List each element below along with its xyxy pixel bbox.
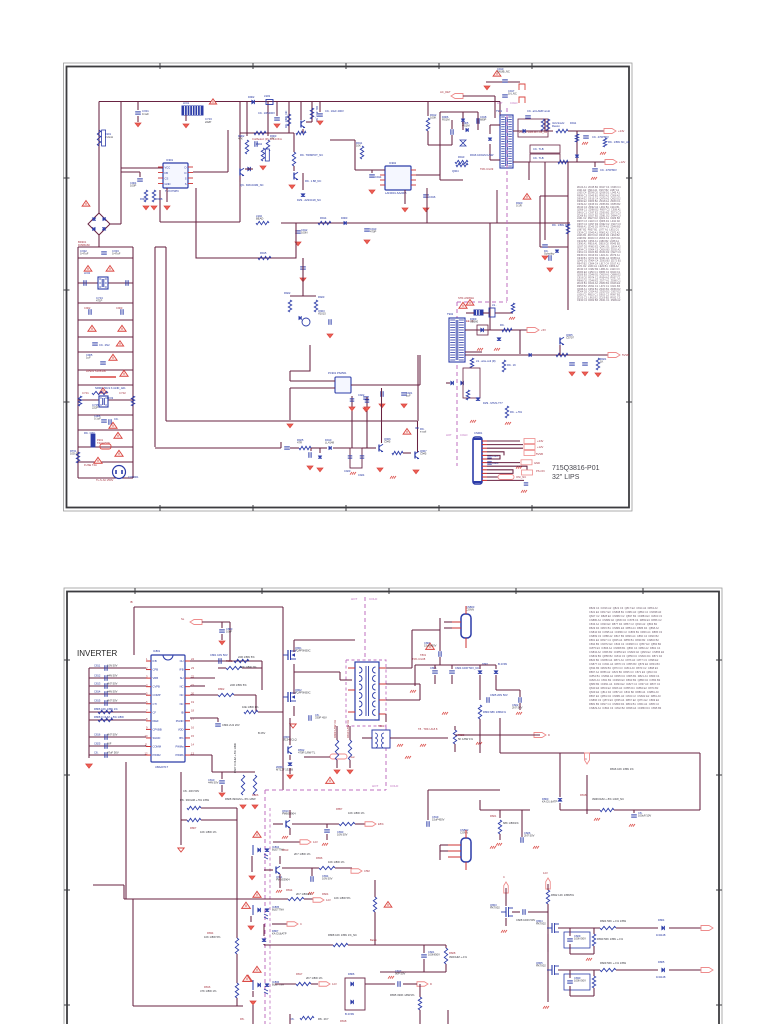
svg-text:5K 1/8W 1%: 5K 1/8W 1% xyxy=(458,737,474,741)
svg-text:32" LIPS: 32" LIPS xyxy=(552,474,580,481)
svg-text:PWMb: PWMb xyxy=(175,753,184,757)
svg-text:2K7 1/8W 1%: 2K7 1/8W 1% xyxy=(306,976,323,980)
svg-text:14: 14 xyxy=(191,743,194,747)
svg-text:R814: R814 xyxy=(286,888,293,892)
svg-text:NC: NC xyxy=(180,702,184,706)
svg-text:R817: R817 xyxy=(296,972,303,976)
svg-text:UBA2071T: UBA2071T xyxy=(155,765,169,769)
svg-text:C923: C923 xyxy=(344,469,351,473)
svg-text:R816 10K 1/8W 1%: R816 10K 1/8W 1% xyxy=(610,767,634,771)
svg-text:R834: R834 xyxy=(207,931,214,935)
svg-text:R820 B2 CN853 A4 R871 A4 C8: R820 B2 CN853 A4 R871 A4 C876 A0 C877 C3… xyxy=(589,658,659,662)
svg-text:COLD: COLD xyxy=(390,784,399,788)
svg-text:R9.. 1.88_NC: R9.. 1.88_NC xyxy=(305,179,321,183)
svg-text:22R 1/8W 5%: 22R 1/8W 5% xyxy=(238,655,255,659)
svg-text:CN880 A4 CN882 A0 Q836 D4 I: CN880 A4 CN882 A0 Q836 D4 IC878 C4 R869 … xyxy=(589,618,662,622)
svg-text:COMP: COMP xyxy=(153,693,161,697)
svg-text:10: 10 xyxy=(145,734,148,738)
svg-text:1N_NC: 1N_NC xyxy=(508,92,517,96)
svg-text:R8.. 39OHM +-5% 1/8W: R8.. 39OHM +-5% 1/8W xyxy=(180,798,210,802)
svg-text:10E 1/8W 1%: 10E 1/8W 1% xyxy=(242,705,259,709)
svg-text:L903: L903 xyxy=(264,94,270,98)
svg-text:10K 1/8W 7%: 10K 1/8W 7% xyxy=(240,665,257,669)
svg-text:1N4148: 1N4148 xyxy=(656,933,666,937)
svg-text:IFB: IFB xyxy=(153,659,157,663)
svg-text:R916 10OHM 1/8W: R916 10OHM 1/8W xyxy=(470,153,494,157)
svg-text:LAF0001-SA2008: LAF0001-SA2008 xyxy=(385,191,407,195)
svg-text:10N 50V: 10N 50V xyxy=(337,833,348,837)
svg-text:1K: 1K xyxy=(600,359,603,363)
svg-text:C815: C815 xyxy=(94,699,101,703)
svg-text:PC901 PS2561: PC901 PS2561 xyxy=(328,371,347,375)
svg-text:IC875 E3 IC896 A4 CN868 B1: IC875 E3 IC896 A4 CN868 B1 Q860 C4 D860 … xyxy=(589,646,661,650)
svg-text:C: C xyxy=(503,875,505,879)
svg-text:5VSB: 5VSB xyxy=(622,353,629,357)
svg-text:100P: 100P xyxy=(130,184,136,188)
svg-text:NC: NC xyxy=(180,693,184,697)
svg-text:0.47uF: 0.47uF xyxy=(112,252,121,256)
svg-text:PWM2: PWM2 xyxy=(153,753,162,757)
svg-text:C816: C816 xyxy=(94,733,101,737)
svg-text:PWMa: PWMa xyxy=(175,745,184,749)
svg-text:12V: 12V xyxy=(326,898,331,902)
svg-text:TL-S AC 250V: TL-S AC 250V xyxy=(96,478,114,482)
svg-text:C: C xyxy=(585,757,587,761)
svg-text:C825: C825 xyxy=(94,742,101,746)
svg-text:715Q3816-P01: 715Q3816-P01 xyxy=(552,465,600,472)
svg-text:KA D1&ATP: KA D1&ATP xyxy=(272,932,287,936)
svg-text:Q834 B3 D839 B3 Q873 C3 IC8: Q834 B3 D839 B3 Q873 C3 IC813 A0 R870 C2… xyxy=(589,666,658,670)
svg-text:C833 A4 C820 E3 R877 D4 R86: C833 A4 C820 E3 R877 D4 R867 C2 Q819 A2 … xyxy=(589,622,658,626)
svg-text:T902: T902 xyxy=(447,312,454,316)
svg-text:R802: R802 xyxy=(218,687,225,691)
svg-text:D: D xyxy=(185,171,187,175)
svg-text:T802: T802 xyxy=(378,724,385,728)
svg-text:C806: C806 xyxy=(430,666,437,670)
svg-text:AC_DET: AC_DET xyxy=(440,90,451,94)
svg-text:C9.. 10uF 400V: C9.. 10uF 400V xyxy=(325,109,344,113)
svg-text:C801 10N 50V: C801 10N 50V xyxy=(210,653,228,657)
svg-text:SB560: SB560 xyxy=(470,319,479,323)
svg-text:2K7 1/8W1%: 2K7 1/8W1% xyxy=(296,892,312,896)
svg-text:100N 50V: 100N 50V xyxy=(574,937,586,941)
svg-text:R809 1/8W 1%: R809 1/8W 1% xyxy=(333,719,337,738)
svg-text:C9.. TLB: C9.. TLB xyxy=(533,156,544,160)
svg-text:BLET7NA: BLET7NA xyxy=(272,908,284,912)
svg-text:INVERTER: INVERTER xyxy=(77,649,118,658)
svg-text:C9..: C9.. xyxy=(114,417,119,421)
svg-text:Q827 C2 D828 E2 CN883 C2 Q8: Q827 C2 D828 E2 CN883 C2 Q897 B2 CN884 E… xyxy=(589,614,663,618)
svg-text:2.2mH: 2.2mH xyxy=(105,135,113,139)
svg-text:44N 50V: 44N 50V xyxy=(107,690,118,694)
svg-text:L904: L904 xyxy=(256,142,262,146)
svg-text:E5%: E5% xyxy=(378,822,384,826)
svg-text:KA D1 &ATP: KA D1 &ATP xyxy=(542,800,558,804)
svg-text:C812: C812 xyxy=(94,674,101,678)
svg-text:IC901: IC901 xyxy=(166,158,174,162)
svg-text:D: D xyxy=(185,166,187,170)
svg-text:D: D xyxy=(548,733,550,737)
svg-text:C932 C4 D962 B3 ZD41 C1 R99: C932 C4 D962 B3 ZD41 C1 R999 A2 xyxy=(577,299,621,302)
svg-text:LL4148: LL4148 xyxy=(325,440,334,444)
svg-text:+12V: +12V xyxy=(619,160,626,164)
svg-text:Q829 E2 Q812 D4 C887 A0 C83: Q829 E2 Q812 D4 C887 A0 C832 B2 D889 A4 … xyxy=(589,690,659,694)
svg-text:+12V: +12V xyxy=(537,445,544,449)
svg-text:CH: CH xyxy=(180,659,184,663)
svg-text:DZ9.. MTZJ-T77: DZ9.. MTZJ-T77 xyxy=(483,401,503,405)
svg-text:R914: R914 xyxy=(320,216,327,220)
svg-text:0.1uF: 0.1uF xyxy=(142,112,149,116)
svg-text:C811: C811 xyxy=(94,664,101,668)
svg-text:C945: C945 xyxy=(420,451,427,455)
svg-text:+5V: +5V xyxy=(541,328,546,332)
svg-text:R829 56K +-1% 1/8W: R829 56K +-1% 1/8W xyxy=(600,961,627,965)
svg-text:DZ9.. AZ23C18_NC: DZ9.. AZ23C18_NC xyxy=(297,198,321,202)
svg-text:HOT: HOT xyxy=(446,433,452,437)
svg-text:R828 39OHM +-5% 1/8W: R828 39OHM +-5% 1/8W xyxy=(225,797,256,801)
svg-text:PMBS3904: PMBS3904 xyxy=(282,812,296,816)
svg-text:C903: C903 xyxy=(116,306,123,310)
svg-text:RS1M: RS1M xyxy=(442,118,450,122)
svg-text:D3SBA60: D3SBA60 xyxy=(78,243,90,247)
svg-text:471P: 471P xyxy=(96,299,102,303)
svg-text:47K 1/8W 1%: 47K 1/8W 1% xyxy=(200,989,217,993)
svg-text:NR901 5D-9 X-GND_A01: NR901 5D-9 X-GND_A01 xyxy=(95,386,126,390)
svg-text:90P 50V: 90P 50V xyxy=(395,972,405,976)
svg-text:D861 E2 R827 C4 Q845 A4 D85: D861 E2 R827 C4 Q845 A4 D855 B1 D839 B2 … xyxy=(589,638,659,642)
svg-text:18: 18 xyxy=(191,709,194,713)
svg-text:C8..: C8.. xyxy=(94,751,99,755)
svg-text:RK7002: RK7002 xyxy=(536,922,546,926)
svg-text:N/F: N/F xyxy=(107,742,112,746)
svg-text:100N: 100N xyxy=(301,231,307,235)
svg-text:12V: 12V xyxy=(543,871,548,875)
svg-text:R829 D4 D815 B1 CN881 E3 R8: R829 D4 D815 B1 CN881 E3 R853 A4 R886 D4… xyxy=(589,626,659,630)
svg-text:100N 50V: 100N 50V xyxy=(574,979,586,983)
svg-text:CN869 C3 C888 A2 D817 B3 R8: CN869 C3 C888 A2 D817 B3 R826 A4 C860 C4… xyxy=(589,634,659,638)
svg-text:CF: CF xyxy=(153,710,157,714)
svg-text:C9.. aCLAMP-snub: C9.. aCLAMP-snub xyxy=(527,109,551,113)
svg-text:T801: T801 xyxy=(420,653,427,657)
svg-text:BLET7NA: BLET7NA xyxy=(272,983,284,987)
svg-text:47R: 47R xyxy=(297,440,302,444)
svg-text:0.1uF: 0.1uF xyxy=(94,417,101,421)
svg-text:CS: CS xyxy=(165,177,169,181)
svg-text:R816: R816 xyxy=(204,985,211,989)
svg-text:LF02: LF02 xyxy=(84,271,91,275)
svg-text:R806 10K 1/8W 1%: R806 10K 1/8W 1% xyxy=(94,707,118,711)
svg-text:C828 100N 50V: C828 100N 50V xyxy=(516,918,535,922)
svg-text:12V: 12V xyxy=(313,840,318,844)
svg-text:R867 A4 R856 A2 C823 B3 D83: R867 A4 R856 A2 C823 B3 D835 C3 C871 E3 … xyxy=(589,670,657,674)
svg-text:C5707: C5707 xyxy=(566,335,574,339)
svg-text:R836: R836 xyxy=(316,856,323,860)
svg-text:C945: C945 xyxy=(384,439,391,443)
svg-text:470P: 470P xyxy=(370,230,376,234)
svg-text:R807: R807 xyxy=(190,826,197,830)
svg-text:CPB: CPB xyxy=(153,668,159,672)
svg-text:15: 15 xyxy=(191,734,194,738)
svg-text:FQPF9N50C: FQPF9N50C xyxy=(295,691,311,695)
svg-text:R908: R908 xyxy=(156,197,163,201)
svg-text:MTZJT-1313B: MTZJT-1313B xyxy=(276,768,293,772)
svg-text:22R 1/8W 5%: 22R 1/8W 5% xyxy=(230,683,247,687)
svg-text:LF03: LF03 xyxy=(107,396,114,400)
svg-text:10K 1/8W 5%: 10K 1/8W 5% xyxy=(204,935,221,939)
svg-text:RK7002: RK7002 xyxy=(490,906,500,910)
svg-text:10K 1/8W 5%: 10K 1/8W 5% xyxy=(334,896,351,900)
svg-text:PGND: PGND xyxy=(176,719,184,723)
svg-text:T901: T901 xyxy=(496,109,503,113)
svg-text:1uF: 1uF xyxy=(86,356,91,360)
svg-text:15uF450V: 15uF450V xyxy=(432,818,445,822)
svg-text:HOT: HOT xyxy=(497,101,503,105)
svg-text:Balan: Balan xyxy=(370,938,377,942)
svg-text:SL: SL xyxy=(181,617,185,621)
svg-text:10K: 10K xyxy=(356,144,361,148)
svg-text:68K 1/8W1%: 68K 1/8W1% xyxy=(503,821,519,825)
svg-text:4N7 50V: 4N7 50V xyxy=(107,682,118,686)
svg-text:C9.. 2N2: C9.. 2N2 xyxy=(99,343,110,347)
svg-text:C804 2U2 26V: C804 2U2 26V xyxy=(222,723,240,727)
svg-text:C924: C924 xyxy=(358,473,365,477)
svg-text:CN844 D4 IC895 A2 CN899 C2: CN844 D4 IC895 A2 CN899 C2 IC883 B1 D846… xyxy=(589,630,663,634)
svg-text:C825 20N 50V: C825 20N 50V xyxy=(490,693,508,697)
svg-text:10K 1/8W 1%: 10K 1/8W 1% xyxy=(200,830,217,834)
svg-text:VCC: VCC xyxy=(165,166,171,170)
svg-text:C9.. 470P80V: C9.. 470P80V xyxy=(600,168,617,172)
svg-text:R829 C4 IC816 A2 Q822 C3 Q8: R829 C4 IC816 A2 Q822 C3 Q817 E2 C814 A2… xyxy=(589,606,658,610)
svg-text:680P: 680P xyxy=(480,118,486,122)
svg-text:+24V: +24V xyxy=(618,129,625,133)
svg-text:100uF/10V: 100uF/10V xyxy=(638,814,651,818)
svg-text:BEAD: BEAD xyxy=(256,217,263,221)
svg-text:222P: 222P xyxy=(92,406,98,410)
svg-text:1N4148: 1N4148 xyxy=(656,975,666,979)
svg-text:R9.. +-5%: R9.. +-5% xyxy=(510,410,523,414)
svg-text:FQPF9N50C: FQPF9N50C xyxy=(295,649,311,653)
svg-text:IREF: IREF xyxy=(153,719,159,723)
svg-text:R907: R907 xyxy=(140,197,147,201)
svg-text:PS-ON: PS-ON xyxy=(536,469,545,473)
svg-text:IC820 A4 C831 B2 CN829 E3 D: IC820 A4 C831 B2 CN829 E3 D893 B2 Q886 D… xyxy=(589,678,661,682)
svg-text:A1015: A1015 xyxy=(318,312,326,316)
svg-text:C902: C902 xyxy=(84,306,91,310)
svg-text:R857: R857 xyxy=(336,807,343,811)
svg-text:R9.. 1K: R9.. 1K xyxy=(507,363,516,367)
svg-text:HOT: HOT xyxy=(372,784,379,788)
svg-text:10K 1/8W 1%: 10K 1/8W 1% xyxy=(348,811,365,815)
svg-text:2N7 50V: 2N7 50V xyxy=(524,834,535,838)
svg-text:L9.. wire-coil (R): L9.. wire-coil (R) xyxy=(476,359,496,363)
svg-text:R818: R818 xyxy=(340,1019,347,1023)
svg-text:R810 1/8W 1%: R810 1/8W 1% xyxy=(346,719,350,738)
svg-text:R8.. 2K7: R8.. 2K7 xyxy=(318,1017,329,1021)
svg-text:IB: IB xyxy=(130,600,133,604)
svg-text:R813: R813 xyxy=(282,848,289,852)
svg-text:R808 10K 1/8W 1%_NC: R808 10K 1/8W 1%_NC xyxy=(328,933,357,937)
svg-text:C: C xyxy=(300,922,302,926)
svg-text:D8..: D8.. xyxy=(290,1017,295,1021)
svg-text:R835 330K 1/8W1%: R835 330K 1/8W1% xyxy=(390,993,415,997)
svg-text:10D-9: 10D-9 xyxy=(70,452,78,456)
svg-text:390KOHM +-5% 1/4W_NC: 390KOHM +-5% 1/4W_NC xyxy=(592,797,624,801)
svg-text:R9.. 1/8W NC_A6: R9.. 1/8W NC_A6 xyxy=(608,140,630,144)
svg-text:R913: R913 xyxy=(458,155,465,159)
svg-text:VDD: VDD xyxy=(178,727,184,731)
svg-text:+24V: +24V xyxy=(537,439,544,443)
svg-text:D902: D902 xyxy=(248,95,255,99)
svg-text:470R 1/8W TL: 470R 1/8W TL xyxy=(298,751,316,755)
svg-text:C9.. TLB: C9.. TLB xyxy=(533,147,544,151)
svg-text:Resist: Resist xyxy=(552,124,560,128)
svg-text:R824 56K +-1% 1/8W: R824 56K +-1% 1/8W xyxy=(600,919,627,923)
svg-text:S: S xyxy=(185,177,187,181)
svg-text:PMBS3904: PMBS3904 xyxy=(276,878,290,882)
svg-text:CPVBB: CPVBB xyxy=(153,727,162,731)
svg-text:330P 45V: 330P 45V xyxy=(315,716,327,720)
svg-text:390OHM +-1%: 390OHM +-1% xyxy=(449,955,467,959)
svg-text:44N 50V: 44N 50V xyxy=(107,674,118,678)
svg-text:B 26V: B 26V xyxy=(258,731,266,735)
svg-text:T8.. TRF-U/L8.8: T8.. TRF-U/L8.8 xyxy=(418,727,438,731)
svg-text:4N7 50V: 4N7 50V xyxy=(107,733,118,737)
svg-text:C916: C916 xyxy=(429,195,436,199)
svg-text:FB: FB xyxy=(165,171,169,175)
svg-text:R808 0 OHM +-5% 1/8W: R808 0 OHM +-5% 1/8W xyxy=(94,715,124,719)
svg-text:B%: B% xyxy=(179,736,184,740)
svg-text:C925: C925 xyxy=(492,454,499,458)
svg-text:C813: C813 xyxy=(94,682,101,686)
svg-text:VRB: VRB xyxy=(153,676,159,680)
svg-text:D911: D911 xyxy=(570,121,577,125)
svg-text:Schottky: Schottky xyxy=(544,251,555,255)
svg-text:0.1R: 0.1R xyxy=(516,204,522,208)
svg-text:CON901: CON901 xyxy=(128,475,139,479)
svg-text:23: 23 xyxy=(191,666,194,670)
svg-text:12V: 12V xyxy=(332,982,337,986)
svg-text:SNUB_NC: SNUB_NC xyxy=(497,70,510,74)
svg-text:C922: C922 xyxy=(358,393,365,397)
svg-text:GND: GND xyxy=(165,182,171,186)
svg-text:SGND: SGND xyxy=(153,736,161,740)
svg-text:HOT: HOT xyxy=(351,597,358,601)
svg-text:R827 0 OHM +-5% 1/8W: R827 0 OHM +-5% 1/8W xyxy=(233,743,237,773)
svg-text:10N 50V: 10N 50V xyxy=(107,664,118,668)
svg-text:R915: R915 xyxy=(260,251,267,255)
svg-text:D804: D804 xyxy=(658,918,665,922)
svg-text:Q9.. KRC243M_NC: Q9.. KRC243M_NC xyxy=(240,183,264,187)
svg-text:IC902: IC902 xyxy=(389,161,397,165)
svg-text:CN866 C3 Q874 E3 Q835 A4 R8: CN866 C3 Q874 E3 Q835 A4 R867 E2 Q871 E2… xyxy=(589,698,660,702)
svg-text:IFB: IFB xyxy=(179,668,183,672)
svg-text:Q840 E3 R843 E2 D826 A0 IC8: Q840 E3 R843 E2 D826 A0 IC855 D4 IC884 E… xyxy=(589,686,659,690)
svg-text:100N/50V: 100N/50V xyxy=(428,953,440,957)
svg-text:B 4V99: B 4V99 xyxy=(498,662,507,666)
svg-text:STR-A6069H: STR-A6069H xyxy=(458,296,474,300)
svg-text:S: S xyxy=(185,182,187,186)
svg-text:R832 14K 1/8W5%: R832 14K 1/8W5% xyxy=(551,893,574,897)
svg-text:CONN: CONN xyxy=(466,608,474,612)
svg-text:D: D xyxy=(430,982,432,986)
svg-text:SH: SH xyxy=(180,676,184,680)
svg-text:R897 E2 Q881 D4 CN881 A0 C8: R897 E2 Q881 D4 CN881 A0 C834 C2 CN822 E… xyxy=(589,694,661,698)
svg-text:R9.. 1/8W_NC: R9.. 1/8W_NC xyxy=(284,111,288,128)
svg-text:Q904: Q904 xyxy=(452,169,459,173)
svg-text:10uF: 10uF xyxy=(226,630,232,634)
svg-text:C824 100P 50V_NC: C824 100P 50V_NC xyxy=(455,666,479,670)
svg-text:TRF-U/L08: TRF-U/L08 xyxy=(412,657,426,661)
svg-text:L9..: L9.. xyxy=(492,303,497,307)
svg-text:16: 16 xyxy=(191,726,194,730)
svg-text:R830 56K 1/8W +-1%: R830 56K 1/8W +-1% xyxy=(597,937,624,941)
svg-text:C5M: C5M xyxy=(364,869,370,873)
svg-text:10N 50V: 10N 50V xyxy=(322,877,333,881)
svg-text:CoilSelect (R)-175-1Ohm: CoilSelect (R)-175-1Ohm xyxy=(252,137,283,141)
svg-text:IC801: IC801 xyxy=(153,649,161,653)
svg-text:C894 B3 CN872 E3 C843 C2 CN: C894 B3 CN872 E3 C843 C2 CN828 C4 Q857 E… xyxy=(589,642,662,646)
svg-text:CY02: CY02 xyxy=(119,391,126,395)
svg-text:D805: D805 xyxy=(658,960,665,964)
svg-text:15uF450V: 15uF450V xyxy=(424,644,437,648)
svg-text:CONN: CONN xyxy=(460,831,468,835)
svg-text:R922: R922 xyxy=(284,291,291,295)
svg-text:R881 B3 D827 C4 CN860 D4 R8: R881 B3 D827 C4 CN860 D4 R819 B1 C864 A2… xyxy=(589,702,659,706)
svg-text:47K: 47K xyxy=(238,137,243,141)
svg-text:CN901: CN901 xyxy=(474,431,483,435)
svg-text:LF01: LF01 xyxy=(183,101,190,105)
svg-text:C8.. 40N 50V: C8.. 40N 50V xyxy=(183,789,199,793)
svg-text:IB: IB xyxy=(181,710,184,714)
svg-text:CN877 C2 IC821 A4 R876 C3 C: CN877 C2 IC821 A4 R876 C3 C855 B3 Q879 E… xyxy=(589,662,660,666)
svg-text:C9.. 10N400V: C9.. 10N400V xyxy=(258,111,275,115)
svg-text:RK7002: RK7002 xyxy=(536,964,546,968)
svg-text:CN834 A2 C866 B2 CN853 E3 C: CN834 A2 C866 B2 CN853 E3 CN823 A0 Q829 … xyxy=(589,650,665,654)
svg-text:CN829 A4 IC894 C3 C842 B2 D: CN829 A4 IC894 C3 C842 B2 D838 A4 CN860 … xyxy=(589,706,662,710)
svg-text:R8..: R8.. xyxy=(240,1017,245,1021)
svg-text:19: 19 xyxy=(191,700,194,704)
svg-text:C814: C814 xyxy=(94,690,101,694)
svg-text:D806: D806 xyxy=(348,972,355,976)
svg-text:44N 50V: 44N 50V xyxy=(208,781,219,785)
svg-text:TRF-U/L09: TRF-U/L09 xyxy=(480,167,494,171)
svg-text:R9.. TRIMPOT_NC: R9.. TRIMPOT_NC xyxy=(300,153,323,157)
svg-text:100K: 100K xyxy=(430,116,436,120)
svg-text:10K 1/8W 1%: 10K 1/8W 1% xyxy=(328,860,345,864)
svg-text:CN819 B3 Q858 B2 IC842 C3 Q: CN819 B3 Q858 B2 IC842 C3 Q856 D4 CN824 … xyxy=(589,654,663,658)
svg-text:IC854 B1 CN894 A2 D835 D4 C: IC854 B1 CN894 A2 D835 D4 C865 B1 R821 A… xyxy=(589,674,660,678)
svg-text:R818: R818 xyxy=(580,793,587,797)
svg-text:C821 E2 D817 E3 CN838 B1 IC: C821 E2 D817 E3 CN838 B1 IC884 A0 Q884 C… xyxy=(589,610,662,614)
svg-text:s-coil: s-coil xyxy=(420,429,427,433)
svg-text:R9..: R9.. xyxy=(500,323,505,327)
svg-text:CY01: CY01 xyxy=(82,391,89,395)
svg-text:222P: 222P xyxy=(205,120,211,124)
svg-text:D903: D903 xyxy=(341,216,348,220)
svg-text:2K7 1/8W 1%: 2K7 1/8W 1% xyxy=(294,852,311,856)
svg-text:R826: R826 xyxy=(252,793,259,797)
svg-text:COMM: COMM xyxy=(153,745,162,749)
svg-text:R828: R828 xyxy=(449,951,456,955)
svg-text:COLD: COLD xyxy=(369,597,378,601)
svg-text:1uF: 1uF xyxy=(406,394,411,398)
svg-text:5VSB: 5VSB xyxy=(536,452,543,456)
svg-text:Q880 B2 CN811 A4 IC823 E2 I: Q880 B2 CN811 A4 IC823 E2 IC827 C4 C837 … xyxy=(589,682,661,686)
svg-text:4N7 50V: 4N7 50V xyxy=(107,699,118,703)
svg-text:47uF 50V: 47uF 50V xyxy=(107,751,119,755)
svg-text:GND: GND xyxy=(534,461,540,465)
svg-text:ON/_NC: ON/_NC xyxy=(516,475,526,479)
